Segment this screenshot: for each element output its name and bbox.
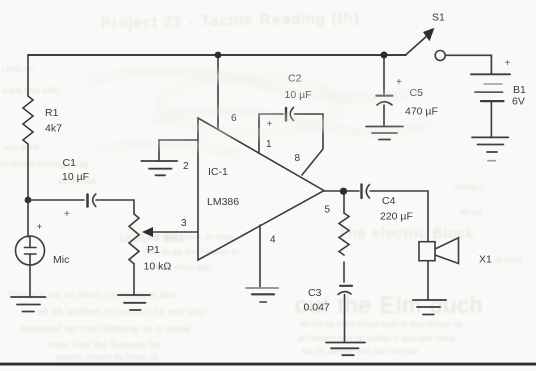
svg-text:2: 2 xyxy=(183,161,189,172)
svg-text:S1: S1 xyxy=(432,12,445,24)
svg-text:+: + xyxy=(505,58,511,69)
svg-text:6V: 6V xyxy=(512,96,525,108)
svg-text:0.047: 0.047 xyxy=(304,302,330,314)
svg-text:masa b: masa b xyxy=(455,182,485,192)
wire R1 to mic node xyxy=(27,144,29,200)
svg-text:an ba sa hant masa sam la bas: an ba sa hant masa sam la bas tahan sa xyxy=(300,319,462,329)
svg-text:1: 1 xyxy=(266,139,272,150)
svg-text:B1: B1 xyxy=(513,84,526,96)
wire left rail top xyxy=(27,55,29,96)
ground (C5) xyxy=(366,127,403,140)
wire mic to ground xyxy=(29,265,31,297)
pin 4 wire xyxy=(259,225,261,288)
svg-text:R1: R1 xyxy=(45,107,59,119)
pin 6 wire xyxy=(217,55,219,129)
svg-text:3: 3 xyxy=(181,218,187,229)
wire node to mic xyxy=(27,200,29,237)
svg-text:this saat berm on sala: this saat berm on sala xyxy=(145,232,233,242)
svg-text:ba na samah asa tan ha mas: ba na samah asa tan ha mas xyxy=(302,346,419,356)
wire battery to ground xyxy=(490,101,492,137)
capacitor C3 xyxy=(340,285,352,287)
svg-text:Mic: Mic xyxy=(53,254,69,266)
ground (pin 2) xyxy=(141,161,177,175)
svg-text:X1: X1 xyxy=(479,254,492,266)
svg-text:ah ab asathan mn asamo ba and: ah ab asathan mn asamo ba and later xyxy=(38,307,207,318)
svg-text:i bak an: i bak an xyxy=(2,64,34,74)
svg-text:4: 4 xyxy=(270,235,276,246)
node output junction xyxy=(340,188,347,195)
speaker X1 xyxy=(419,242,435,261)
capacitor C5 xyxy=(383,58,385,94)
wire top rail xyxy=(28,54,406,56)
svg-text:naas haw tha thasuna ba: naas haw tha thasuna ba xyxy=(48,340,160,351)
wire C3 to ground xyxy=(344,295,346,343)
wire speaker to ground xyxy=(427,261,429,300)
wire C1 to P1 xyxy=(96,200,134,214)
capacitor C1 xyxy=(31,199,84,201)
svg-text:C4: C4 xyxy=(382,195,396,207)
switch S1 xyxy=(405,37,426,55)
svg-text:8: 8 xyxy=(295,153,301,164)
potentiometer P1 xyxy=(129,214,139,264)
svg-text:C3: C3 xyxy=(308,287,322,299)
wire switch to battery xyxy=(446,55,492,74)
resistor R1 xyxy=(23,96,33,144)
svg-text:at mah: at mah xyxy=(495,255,523,265)
svg-text:+: + xyxy=(37,222,43,233)
svg-text:C1: C1 xyxy=(63,157,77,169)
battery B1 xyxy=(471,73,510,75)
svg-text:+: + xyxy=(64,209,70,220)
capacitor C2 (pin1 to pin8) xyxy=(259,114,283,154)
capacitor C4 xyxy=(348,190,360,192)
ground (pin 4) xyxy=(246,287,278,289)
svg-text:P1: P1 xyxy=(147,244,160,256)
svg-text:a pat anu satu: a pat anu satu xyxy=(2,85,59,95)
svg-text:an sa: an sa xyxy=(460,207,482,217)
svg-text:10 µF: 10 µF xyxy=(62,171,89,183)
svg-text:5: 5 xyxy=(325,205,331,216)
svg-text:220 µF: 220 µF xyxy=(380,211,413,223)
resistor R2 (zobel, unlabeled) xyxy=(343,195,345,213)
svg-text:4k7: 4k7 xyxy=(45,123,62,135)
ground (C3) xyxy=(326,343,365,356)
svg-text:at hasam naa by sahan b asa la: at hasam naa by sahan b asa lam sana xyxy=(298,333,455,343)
ground (mic) xyxy=(11,297,46,312)
wire P1 to ground xyxy=(133,264,135,295)
svg-text:annamad apt man blahang sa m a: annamad apt man blahang sa m asala xyxy=(20,324,191,335)
faint scan mottling xyxy=(90,71,430,155)
ground (B1) xyxy=(472,137,508,152)
svg-text:LM386: LM386 xyxy=(207,196,239,208)
microphone Mic xyxy=(16,236,45,265)
svg-text:+: + xyxy=(267,119,273,130)
svg-text:6: 6 xyxy=(231,113,237,124)
op-amp IC-1 LM386 xyxy=(198,118,324,260)
svg-text:IC-1: IC-1 xyxy=(208,166,228,178)
scan artifact: bottom rule xyxy=(0,363,536,366)
svg-text:saama saham ha basa na: saama saham ha basa na xyxy=(55,352,159,362)
pin 3 label xyxy=(181,218,187,229)
node A (mic junction) xyxy=(25,197,32,204)
label R1 value xyxy=(45,107,62,135)
ground (X1) xyxy=(413,300,446,315)
pin 2 wire xyxy=(159,140,198,161)
wire output (pin 5) xyxy=(324,190,341,192)
wire to C3 xyxy=(343,262,345,282)
ground (P1) xyxy=(118,295,150,310)
node (C5 / rail) xyxy=(381,52,388,59)
svg-text:10 kΩ: 10 kΩ xyxy=(144,261,172,273)
node (pin6 / rail) xyxy=(215,52,222,59)
svg-text:470 µF: 470 µF xyxy=(405,106,438,118)
svg-text:+: + xyxy=(396,77,402,88)
svg-text:asa tasat: asa tasat xyxy=(3,142,40,152)
